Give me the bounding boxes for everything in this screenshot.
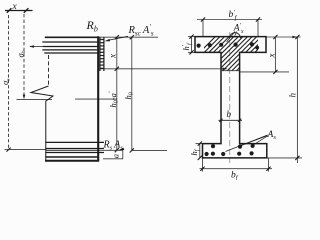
compression depth boundary in web	[221, 70, 240, 72]
beam elevation left edge (below break)	[45, 101, 47, 162]
top flange rebar dots	[197, 42, 260, 49]
svg-text:bf: bf	[231, 171, 239, 181]
steel level short line to dim a	[99, 149, 123, 151]
dimension b'f	[197, 19, 262, 21]
mid pointer line at lever arm level	[75, 98, 117, 100]
bottom extension line for right x dim	[240, 71, 289, 73]
leader from Rsc A's to stress block	[107, 36, 128, 40]
compressed zone diagonal hatch	[174, 32, 303, 78]
beam elevation dashed left edge (above break)	[48, 55, 50, 86]
arrowhead at right end of compression line	[223, 68, 228, 71]
flange hatch top lines	[42, 42, 98, 53]
svg-text:b: b	[227, 109, 232, 119]
bottom edge short line for dim a	[103, 158, 123, 160]
strain diagram axis line L1	[8, 15, 10, 150]
arrowhead at bottom of L2	[23, 95, 26, 100]
stress block ladder hatch	[100, 37, 104, 71]
svg-text:hf: hf	[189, 148, 201, 155]
tick at L1 bottom	[7, 148, 11, 152]
svg-text:b′f: b′f	[229, 9, 238, 22]
section vertical centerline	[229, 32, 231, 163]
dimension line h0-a'	[116, 69, 118, 150]
dimension line a	[122, 150, 124, 159]
dimension line h	[296, 37, 298, 164]
b'f extension lines	[202, 20, 204, 36]
tension steel level line inside beam	[46, 149, 98, 151]
compression zone bottom line (long)	[100, 68, 227, 70]
top extension line to h dim	[266, 36, 301, 38]
dimension h'f	[188, 36, 196, 38]
beam elevation right edge	[97, 36, 99, 161]
web width dim line	[219, 119, 243, 121]
svg-text:h0-a′: h0-a′	[107, 91, 119, 107]
svg-text:x: x	[12, 2, 18, 12]
I-section outline	[195, 37, 267, 158]
dimension bf	[202, 158, 204, 171]
dimension hf (bottom flange)	[196, 143, 204, 145]
A's leader arc	[230, 33, 241, 38]
bottom extension line to h dim	[267, 157, 302, 159]
break zigzag	[31, 86, 53, 101]
svg-text:h0: h0	[123, 92, 135, 99]
dimension line x (stress block depth)	[116, 37, 118, 69]
svg-text:h: h	[288, 93, 298, 98]
top extension line (section top level)	[99, 36, 158, 38]
neutral axis pointer line (through break)	[17, 99, 53, 101]
svg-text:σb: σb	[16, 50, 28, 57]
leader arrow from Rs As	[119, 148, 125, 151]
dimension x (top-left strain diagram)	[5, 2, 33, 13]
svg-text:a: a	[110, 154, 120, 158]
strain bottom level line	[5, 149, 47, 151]
svg-text:As: As	[267, 130, 277, 141]
svg-text:σs: σs	[0, 79, 12, 85]
compression top pointer with arrow	[30, 46, 43, 48]
dimension line h0	[131, 37, 133, 150]
As leader lines	[226, 135, 268, 152]
steel level extension toward right figure	[132, 149, 167, 151]
svg-text:x: x	[108, 54, 118, 59]
dimension x (right side)	[274, 37, 276, 72]
svg-text:Rb: Rb	[86, 18, 98, 34]
bottom flange rebar dots	[205, 144, 255, 156]
svg-text:x: x	[266, 54, 276, 59]
svg-text:Rsc A′s: Rsc A′s	[128, 23, 154, 38]
beam elevation top edge	[45, 36, 99, 38]
flange hatch bottom lines	[45, 142, 104, 157]
beam elevation bottom edge	[45, 160, 99, 162]
strain diagram line L2	[23, 14, 25, 96]
A's leader lines	[227, 32, 236, 43]
arrowhead at h dim top junction	[292, 36, 297, 38]
